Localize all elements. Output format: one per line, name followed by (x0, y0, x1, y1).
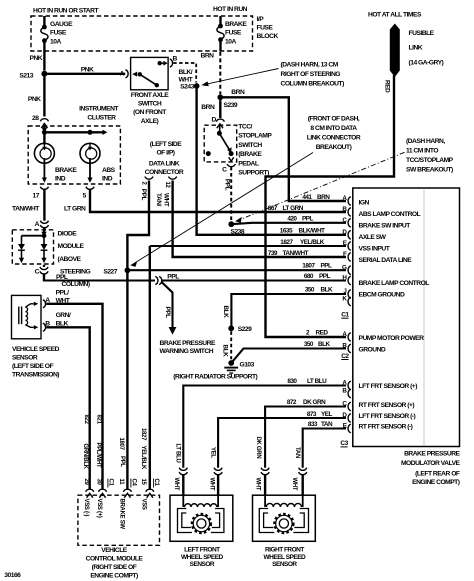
svg-text:E: E (343, 240, 347, 247)
svg-text:RT FRT SENSOR (-): RT FRT SENSOR (-) (359, 424, 413, 431)
svg-text:(DASH HARN,: (DASH HARN, (406, 138, 445, 145)
svg-text:E: E (343, 423, 347, 430)
svg-text:441: 441 (302, 194, 312, 201)
svg-text:S229: S229 (238, 326, 252, 333)
svg-text:(LEFT SIDE: (LEFT SIDE (150, 141, 182, 148)
svg-text:CONTROL MODULE: CONTROL MODULE (86, 555, 144, 562)
svg-text:BRAKE LAMP CONTROL: BRAKE LAMP CONTROL (359, 280, 430, 287)
svg-text:(ABOVE: (ABOVE (58, 256, 82, 263)
svg-text:PPL/WHT: PPL/WHT (95, 443, 101, 469)
svg-text:GAUGE: GAUGE (50, 21, 73, 28)
svg-text:TAN/WHT: TAN/WHT (12, 206, 40, 213)
svg-text:HOT IN RUN OR START: HOT IN RUN OR START (33, 7, 99, 14)
svg-text:WHT: WHT (56, 297, 71, 304)
svg-text:HOT AT ALL TIMES: HOT AT ALL TIMES (368, 12, 422, 19)
svg-text:C: C (222, 166, 227, 173)
svg-text:LT BLU: LT BLU (175, 444, 181, 463)
svg-text:WHT: WHT (179, 76, 194, 83)
svg-text:RIGHT OF STEERING: RIGHT OF STEERING (281, 71, 341, 78)
svg-text:420: 420 (287, 215, 297, 222)
svg-text:PPL: PPL (319, 273, 331, 280)
svg-text:RED: RED (383, 80, 390, 93)
svg-text:BLK/WHT: BLK/WHT (299, 228, 326, 235)
svg-text:ENGINE COMPT): ENGINE COMPT) (90, 572, 138, 579)
svg-text:680: 680 (304, 273, 314, 280)
svg-text:LFT FRT SENSOR (-): LFT FRT SENSOR (-) (359, 413, 416, 420)
svg-text:PNK: PNK (30, 55, 43, 62)
svg-text:D: D (211, 117, 216, 124)
svg-text:S238: S238 (230, 229, 244, 236)
svg-text:BRN: BRN (317, 194, 330, 201)
svg-text:HOT IN RUN: HOT IN RUN (213, 6, 248, 13)
svg-text:YEL/BLK: YEL/BLK (300, 239, 325, 246)
svg-text:C4: C4 (131, 479, 137, 487)
svg-text:BRAKE SW INPUT: BRAKE SW INPUT (359, 222, 412, 229)
svg-text:(DASH HARN, 13 CM: (DASH HARN, 13 CM (281, 61, 339, 68)
svg-text:(RIGHT RADIATOR SUPPORT): (RIGHT RADIATOR SUPPORT) (173, 373, 257, 380)
svg-text:BRN: BRN (201, 53, 215, 60)
svg-text:PPL/: PPL/ (56, 289, 70, 296)
svg-text:C1: C1 (153, 479, 159, 487)
svg-text:BLK/: BLK/ (179, 69, 193, 76)
svg-text:YEL: YEL (209, 447, 215, 458)
svg-text:G: G (342, 264, 347, 271)
svg-text:COLUMN): COLUMN) (62, 281, 90, 288)
svg-text:(LEFT SIDE OF: (LEFT SIDE OF (12, 363, 53, 370)
svg-text:SERIAL DATA LINE: SERIAL DATA LINE (359, 257, 413, 264)
svg-text:C2: C2 (341, 353, 349, 360)
svg-text:RT FRT SENSOR (+): RT FRT SENSOR (+) (359, 402, 415, 409)
svg-text:G103: G103 (240, 362, 255, 369)
svg-text:1827: 1827 (140, 428, 146, 441)
svg-text:C: C (35, 269, 40, 276)
svg-text:BRAKE PRESSURE: BRAKE PRESSURE (404, 450, 460, 457)
svg-text:PPL: PPL (321, 262, 333, 269)
svg-text:LT GRN: LT GRN (283, 205, 304, 212)
svg-text:1807: 1807 (302, 262, 315, 269)
svg-text:BREAKOUT): BREAKOUT) (316, 144, 352, 151)
svg-text:C1: C1 (341, 312, 349, 319)
svg-text:LT BLU: LT BLU (307, 378, 327, 385)
svg-text:WHT: WHT (254, 478, 260, 491)
svg-text:BLK: BLK (222, 306, 229, 319)
svg-text:30: 30 (96, 479, 102, 486)
svg-text:OF I/P): OF I/P) (156, 150, 174, 157)
svg-text:PNK: PNK (81, 67, 94, 74)
svg-text:1827: 1827 (280, 239, 293, 246)
svg-text:1635: 1635 (280, 228, 293, 235)
svg-text:LEFT FRONT: LEFT FRONT (184, 547, 220, 554)
svg-text:PUMP MOTOR POWER: PUMP MOTOR POWER (359, 335, 425, 342)
svg-text:CLUSTER: CLUSTER (87, 115, 116, 122)
svg-text:BLK: BLK (318, 341, 331, 348)
svg-text:WHEEL SPEED: WHEEL SPEED (181, 554, 224, 561)
svg-text:GRN/: GRN/ (56, 312, 71, 319)
svg-text:(BRAKE: (BRAKE (238, 151, 262, 158)
svg-text:350: 350 (304, 341, 314, 348)
svg-text:PPL: PPL (302, 215, 314, 222)
svg-text:DK GRN: DK GRN (255, 437, 261, 459)
svg-text:VEHICLE: VEHICLE (101, 547, 128, 554)
svg-text:WHT: WHT (173, 478, 179, 491)
svg-text:350: 350 (305, 287, 315, 294)
svg-text:YEL/BLK: YEL/BLK (140, 446, 146, 471)
svg-text:WHT: WHT (209, 478, 215, 491)
svg-text:TAN: TAN (321, 421, 333, 428)
svg-text:TAN/: TAN/ (155, 193, 162, 207)
svg-text:29: 29 (83, 479, 89, 486)
svg-text:VSS (+): VSS (+) (96, 499, 102, 518)
svg-text:17: 17 (33, 193, 40, 200)
svg-text:PPL: PPL (167, 273, 179, 280)
svg-text:TAN/WHT: TAN/WHT (283, 250, 309, 257)
svg-text:BLK: BLK (56, 320, 69, 327)
svg-text:WARNING SWITCH: WARNING SWITCH (160, 348, 214, 355)
svg-text:867: 867 (268, 205, 278, 212)
svg-text:DATA LINK: DATA LINK (149, 160, 180, 167)
svg-text:(LEFT REAR OF: (LEFT REAR OF (415, 470, 460, 477)
svg-text:S213: S213 (19, 73, 33, 80)
svg-text:SUPPORT): SUPPORT) (238, 170, 269, 177)
svg-text:IGN: IGN (359, 199, 370, 206)
svg-text:GRN/BLK: GRN/BLK (82, 444, 88, 470)
svg-text:IND: IND (102, 176, 113, 183)
svg-text:FUSE: FUSE (257, 25, 274, 32)
svg-text:FRONT AXLE: FRONT AXLE (131, 92, 170, 99)
svg-text:833: 833 (308, 421, 318, 428)
svg-text:830: 830 (287, 378, 297, 385)
svg-text:AXLE SW: AXLE SW (359, 234, 387, 241)
svg-text:LINK CONNECTOR: LINK CONNECTOR (307, 134, 361, 141)
svg-text:A: A (35, 221, 40, 228)
svg-text:ABS LAMP CONTROL: ABS LAMP CONTROL (359, 211, 421, 218)
svg-text:FUSE: FUSE (225, 30, 242, 37)
svg-text:PPL: PPL (119, 456, 125, 467)
svg-text:S243: S243 (180, 84, 194, 91)
svg-text:BRN: BRN (201, 104, 215, 111)
svg-text:(RIGHT SIDE OF: (RIGHT SIDE OF (92, 564, 137, 571)
svg-text:RED: RED (316, 330, 329, 337)
svg-text:WHT: WHT (291, 478, 297, 491)
svg-text:MODULE: MODULE (58, 243, 85, 250)
svg-text:VSS (-): VSS (-) (83, 499, 89, 517)
svg-text:BLK: BLK (321, 287, 334, 294)
svg-text:28: 28 (32, 115, 39, 122)
svg-text:739: 739 (268, 250, 278, 257)
svg-text:821: 821 (96, 415, 102, 425)
svg-text:COLUMN BREAKOUT): COLUMN BREAKOUT) (281, 81, 345, 88)
svg-text:A: A (120, 71, 125, 78)
svg-text:1807: 1807 (118, 438, 124, 451)
svg-text:822: 822 (83, 415, 89, 425)
svg-text:C3: C3 (340, 440, 348, 447)
svg-text:12: 12 (164, 182, 170, 189)
svg-text:LT GRN: LT GRN (64, 206, 86, 213)
svg-text:IND: IND (55, 176, 66, 183)
svg-text:ABS: ABS (102, 167, 116, 174)
svg-text:BRAKE SW: BRAKE SW (119, 499, 125, 530)
svg-text:8 CM INTO DATA: 8 CM INTO DATA (310, 125, 357, 132)
svg-text:AXLE): AXLE) (141, 118, 159, 125)
svg-text:MODULATOR VALVE: MODULATOR VALVE (401, 460, 461, 467)
svg-text:VSS: VSS (141, 499, 147, 510)
svg-text:S239: S239 (224, 102, 238, 109)
svg-text:10A: 10A (50, 38, 61, 45)
svg-text:SENSOR: SENSOR (272, 561, 297, 568)
svg-text:30166: 30166 (4, 572, 21, 579)
svg-text:VSS INPUT: VSS INPUT (359, 245, 391, 252)
svg-text:WHEEL SPEED: WHEEL SPEED (264, 554, 307, 561)
svg-text:SENSOR: SENSOR (12, 355, 38, 362)
svg-text:YEL: YEL (321, 411, 333, 418)
svg-text:I/P: I/P (257, 16, 265, 23)
svg-text:ENGINE COMPT): ENGINE COMPT) (412, 479, 460, 486)
svg-text:11: 11 (118, 479, 124, 486)
svg-text:INSTRUMENT: INSTRUMENT (79, 106, 119, 113)
svg-text:FUSIBLE: FUSIBLE (409, 30, 435, 37)
svg-text:BLOCK: BLOCK (257, 33, 279, 40)
svg-text:TAN: TAN (294, 447, 300, 458)
svg-text:PNK: PNK (28, 96, 41, 103)
svg-text:873: 873 (307, 411, 317, 418)
svg-text:VEHICLE SPEED: VEHICLE SPEED (12, 346, 60, 353)
svg-text:BLK: BLK (222, 345, 229, 358)
svg-text:PPL: PPL (164, 307, 171, 319)
svg-text:B: B (173, 55, 178, 62)
svg-text:STOPLAMP: STOPLAMP (238, 133, 272, 140)
svg-text:15: 15 (140, 479, 146, 486)
svg-text:SW BREAKOUT): SW BREAKOUT) (406, 167, 453, 174)
svg-text:TCC/STOPLAMP: TCC/STOPLAMP (406, 157, 454, 164)
svg-text:FUSE: FUSE (50, 30, 67, 37)
svg-text:PEDAL: PEDAL (238, 160, 259, 167)
svg-text:(ON FRONT: (ON FRONT (133, 109, 167, 116)
svg-text:DIODE: DIODE (58, 230, 78, 237)
svg-text:BRAKE: BRAKE (55, 167, 77, 174)
svg-text:LFT FRT SENSOR (+): LFT FRT SENSOR (+) (359, 383, 418, 390)
svg-text:872: 872 (287, 399, 297, 406)
svg-text:WHT: WHT (163, 193, 170, 207)
svg-text:EBCM GROUND: EBCM GROUND (359, 291, 405, 298)
svg-text:SENSOR: SENSOR (190, 561, 215, 568)
svg-text:S227: S227 (103, 268, 117, 275)
svg-text:10A: 10A (225, 38, 236, 45)
svg-text:BRN: BRN (231, 89, 245, 96)
svg-text:TRANSMISSION): TRANSMISSION) (12, 372, 59, 379)
svg-text:(FRONT OF DASH,: (FRONT OF DASH, (308, 115, 360, 122)
svg-text:PPL: PPL (223, 179, 230, 191)
svg-text:(14 GA-GRY): (14 GA-GRY) (409, 59, 444, 66)
svg-text:CONNECTOR: CONNECTOR (145, 169, 184, 176)
svg-text:11 CM INTO: 11 CM INTO (406, 148, 438, 155)
svg-text:BRAKE PRESSURE: BRAKE PRESSURE (160, 340, 216, 347)
svg-text:C1: C1 (108, 479, 114, 487)
svg-text:TCC/: TCC/ (238, 124, 252, 131)
svg-text:GROUND: GROUND (359, 347, 386, 354)
svg-text:LINK: LINK (409, 45, 423, 52)
svg-text:PPL: PPL (140, 189, 147, 201)
svg-text:DK GRN: DK GRN (303, 399, 326, 406)
svg-text:SWITCH: SWITCH (138, 101, 162, 108)
svg-text:SWITCH: SWITCH (238, 142, 262, 149)
svg-text:BRAKE: BRAKE (225, 21, 247, 28)
svg-text:RIGHT FRONT: RIGHT FRONT (265, 547, 304, 554)
